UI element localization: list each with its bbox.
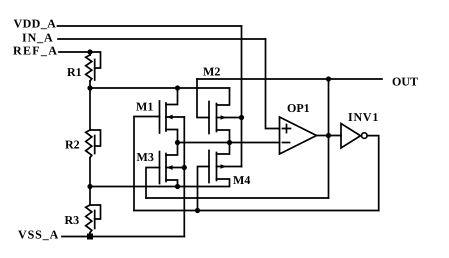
- wire IN_A horizontal: [58, 38, 266, 40]
- svg-text:R3: R3: [65, 213, 80, 227]
- node VSS/R3 junction dot: [87, 234, 93, 240]
- svg-text:VDD_A: VDD_A: [14, 17, 57, 31]
- op-amp U1 triangle: [280, 117, 317, 154]
- node OUT junction dot: [326, 76, 331, 81]
- node M4 gate on INV-out wire dot: [195, 208, 200, 213]
- wire tap2 horizontal (R2/R3 junction to M3,M4 sources): [90, 186, 228, 188]
- transistor M3 (NMOS): [160, 143, 185, 187]
- svg-text:VSS_A: VSS_A: [18, 228, 59, 242]
- svg-text:R1: R1: [67, 65, 82, 79]
- wire REF_A horizontal: [59, 51, 90, 53]
- node tap2: R2/R3 junction dot: [87, 184, 92, 189]
- wire INV-out to M1/M4 gates: [134, 210, 379, 212]
- svg-text:OP1: OP1: [287, 101, 310, 115]
- op-amp plus sign: [283, 125, 291, 133]
- wire tap1 horizontal (R1/R2 junction to M1,M2 drains): [90, 87, 230, 89]
- wire M1 gate riser (from INV-out wire): [134, 117, 160, 211]
- wire VDD_A vertical rail: [241, 26, 243, 167]
- wire op-amp minus input (M1/M2 sources, M3/M4 drains): [178, 142, 280, 144]
- node M3 source dot: [175, 184, 180, 189]
- wire INV1 output: [367, 136, 379, 211]
- svg-text:M1: M1: [136, 100, 153, 114]
- node REF tap1: R1/R2 junction dot: [87, 85, 92, 90]
- svg-text:INV1: INV1: [348, 110, 379, 124]
- inverter INV1 bubble: [362, 133, 368, 139]
- resistor R3: [86, 187, 101, 237]
- transistor M2 (PMOS): [209, 88, 242, 143]
- node M3 bulk on bulk rail dot: [182, 165, 187, 170]
- resistor R2: [86, 88, 101, 187]
- svg-text:IN_A: IN_A: [22, 31, 54, 45]
- wire OUT horizontal: [197, 78, 382, 80]
- svg-text:M3: M3: [137, 150, 154, 164]
- transistor M1 (NMOS): [160, 88, 185, 143]
- op-amp minus sign: [283, 142, 290, 144]
- svg-text:OUT: OUT: [392, 75, 418, 89]
- svg-text:R2: R2: [65, 137, 80, 151]
- node M1 drain dot: [175, 85, 180, 90]
- wire IN_A vertical to op-amp + input: [266, 39, 280, 129]
- resistor R1: [86, 52, 101, 88]
- wire M3 gate riser (to feedback wire): [146, 168, 160, 199]
- node M1 source / M3 drain dot: [175, 140, 180, 145]
- wire bulk rail (M1,M3 bulks to VSS): [183, 117, 185, 237]
- node REF top junction dot: [87, 49, 92, 54]
- wire M2 gate riser (from OUT wire): [197, 79, 209, 118]
- wire M4 gate riser (from INV-out wire): [198, 167, 210, 211]
- wire feedback to M3 gate: [146, 197, 329, 199]
- wire VSS_A horizontal: [62, 236, 184, 238]
- transistor M4 (PMOS): [209, 143, 242, 187]
- node M2 source / M4 drain dot: [227, 140, 232, 145]
- svg-text:M4: M4: [233, 173, 250, 187]
- svg-text:M2: M2: [203, 65, 220, 79]
- node M2 bulk to VDD rail dot: [239, 115, 244, 120]
- wire VDD_A horizontal: [58, 25, 242, 27]
- inverter INV1 triangle: [341, 124, 361, 149]
- wire op-amp output: [317, 135, 342, 137]
- wire output rail vertical: [328, 79, 330, 198]
- svg-text:REF_A: REF_A: [13, 44, 58, 58]
- node op-amp output dot: [326, 133, 331, 138]
